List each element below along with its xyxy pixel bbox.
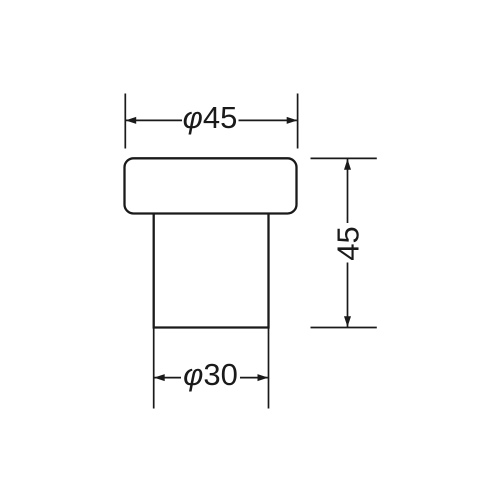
arrowhead right (phi30) [258,374,269,381]
extension line bottom (45 height) [311,327,377,329]
part outline: knob cap (rounded top) [125,158,297,213]
arrowhead down (45) [344,316,351,327]
extension line right (phi45) [297,94,299,149]
part outline: cylindrical body [154,214,269,328]
arrowhead left (phi45) [126,117,137,124]
dimension line phi30 left segment [154,377,181,379]
arrowhead up (45) [344,159,351,170]
svg-text:45: 45 [331,226,366,260]
dimension line phi45 right segment [239,119,297,121]
extension line top (45 height) [311,157,377,159]
dimension line phi45 left segment [126,119,182,121]
extension line left (phi30) [153,328,155,409]
dimension line 45 lower segment [347,263,349,328]
extension line left (phi45) [124,94,126,149]
extension line right (phi30) [268,328,270,409]
arrowhead left (phi30) [154,374,165,381]
svg-text:φ45: φ45 [183,100,238,135]
dimension line 45 upper segment [347,159,349,223]
arrowhead right (phi45) [287,117,298,124]
svg-text:φ30: φ30 [183,357,238,392]
dimension line phi30 right segment [240,377,268,379]
